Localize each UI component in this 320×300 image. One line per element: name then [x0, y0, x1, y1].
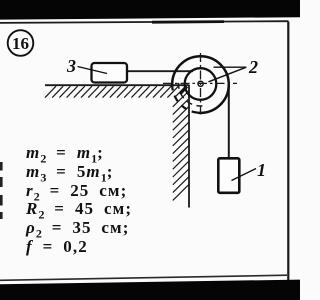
leader line label 3 [78, 67, 108, 74]
rope from block 3 to pulley [127, 70, 193, 72]
pulley 2 : dashed rho circle arc [179, 78, 203, 106]
rope hanging to block 1 [228, 84, 230, 159]
label 2 [249, 57, 258, 78]
block 3 [92, 63, 128, 83]
block 1 [218, 158, 239, 193]
bottom black scanner bar [0, 280, 300, 300]
pulley 2 : outer circle dashed lower-left part [172, 87, 198, 113]
problem number circle 16 [8, 30, 34, 56]
label 1 [257, 160, 266, 181]
pulley 2 : outer circle solid part [172, 56, 229, 113]
bottom frame line [0, 275, 287, 280]
table hatching [45, 86, 186, 97]
top frame line darker segment [152, 20, 224, 23]
parameter text block [26, 144, 132, 257]
pulley 2 : inner circle [185, 68, 217, 100]
line m3 = 5m1 [26, 163, 132, 182]
right frame line [287, 22, 289, 285]
label 3 [67, 56, 76, 77]
wall hatching [173, 91, 189, 200]
table surface line [45, 84, 190, 86]
top frame line [0, 21, 289, 23]
line r2 = 25 cm [26, 182, 132, 201]
leader line label 1 [232, 169, 257, 181]
left edge scan dashes [0, 162, 3, 219]
top black scanner bar [0, 0, 300, 20]
pulley 2 : horizontal centerline [163, 82, 237, 84]
svg-text:16: 16 [12, 34, 29, 53]
line R2 = 45 cm [26, 200, 132, 219]
line f = 0,2 [26, 238, 132, 257]
leader lines label 2 [214, 66, 247, 68]
line rho2 = 35 cm [26, 219, 132, 238]
line m2 = m1 [26, 144, 132, 163]
wall line [188, 85, 190, 207]
pulley 2 : vertical centerline [200, 53, 202, 116]
pulley 2 : hub [198, 81, 203, 86]
pulley 2 : dark wedge mark [180, 87, 187, 95]
